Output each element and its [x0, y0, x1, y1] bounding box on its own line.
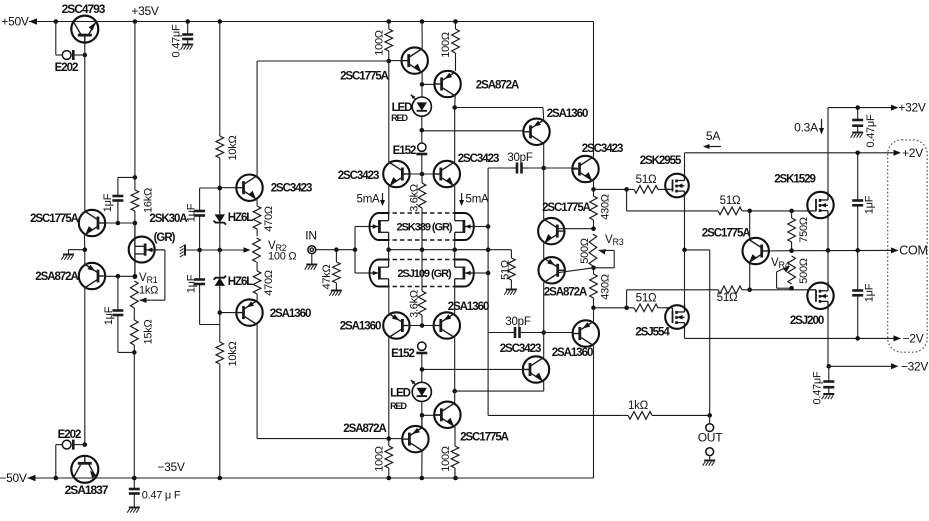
junction cap bottom rail — [132, 476, 137, 481]
junction base row c1775 x135 — [133, 221, 138, 226]
junction rail x455 bottom — [453, 476, 458, 481]
wire 2SA872A-l base row — [105, 275, 135, 277]
transistor 2SA872A mid — [539, 257, 565, 283]
junction cap top rail — [185, 19, 190, 24]
arrow 5mA right — [459, 193, 464, 206]
svg-text:COM: COM — [899, 244, 927, 258]
node +50V label — [1, 15, 29, 29]
wire IN to 47k — [316, 249, 355, 251]
svg-text:2SJ554: 2SJ554 — [635, 327, 670, 339]
node -50V label — [0, 471, 27, 485]
value 1uF right top — [864, 195, 876, 214]
value 16kOhm — [143, 188, 155, 213]
junction right gate bottom — [486, 271, 491, 276]
junction row D — [591, 306, 596, 311]
svg-text:5mA: 5mA — [357, 194, 380, 206]
wire vr4 to rowC — [791, 288, 793, 290]
pot VR2 wiper arrow — [244, 247, 251, 253]
transistor 2SA1360 bias bottom — [236, 299, 262, 325]
wire 30pF bottom to base — [526, 332, 573, 334]
wire bias bottom base — [220, 312, 237, 314]
wire cascode BR collector — [454, 338, 456, 392]
label 2SJ554 — [635, 327, 670, 339]
wire rowA to rowB — [626, 189, 628, 211]
value VR1 1k — [139, 285, 158, 297]
transistor 2SC1775A mid — [538, 218, 564, 244]
value 470 bottom — [263, 270, 275, 296]
wire VAS-t collector — [543, 144, 545, 168]
wire a872 mid base — [558, 268, 594, 273]
resistor 100 bottom-right — [451, 427, 459, 478]
arrow 0.3A — [819, 119, 824, 135]
junction base row c1775 x118 — [116, 221, 121, 226]
value 47kOhm — [321, 264, 333, 289]
svg-text:0.47μF: 0.47μF — [812, 371, 824, 404]
svg-text:2SK389 (GR): 2SK389 (GR) — [396, 222, 452, 234]
svg-text:10kΩ: 10kΩ — [227, 135, 239, 160]
label 2SA1360 VAS top — [547, 108, 588, 120]
junction rail x422 — [420, 19, 425, 24]
wire J200 drain — [827, 308, 829, 366]
potentiometer VR3 — [589, 234, 614, 268]
svg-text:+32V: +32V — [898, 101, 926, 115]
svg-text:2SC3423: 2SC3423 — [582, 143, 623, 155]
svg-text:3.6kΩ: 3.6kΩ — [409, 184, 421, 212]
transistor 2SA872A left — [79, 263, 105, 289]
zener HZ6L bottom — [214, 250, 226, 313]
svg-text:−50V: −50V — [0, 471, 27, 485]
junction K1529 source COM — [826, 248, 831, 253]
CRD E152 top — [416, 143, 427, 174]
svg-text:500Ω: 500Ω — [579, 238, 591, 264]
wire rowC to J200 gate — [750, 289, 809, 291]
resistor 3.6k bottom — [418, 250, 426, 326]
svg-text:10kΩ: 10kΩ — [227, 341, 239, 366]
junction zener bottom node — [218, 310, 223, 315]
svg-text:HZ6L: HZ6L — [228, 212, 254, 224]
svg-text:1μF: 1μF — [864, 195, 876, 214]
svg-text:2SC1775A: 2SC1775A — [340, 71, 389, 83]
label 2SC4793 — [62, 2, 106, 16]
value 3.6k top — [409, 184, 421, 212]
label 2SA872A mid — [544, 287, 587, 299]
wire -32V row — [829, 365, 894, 367]
svg-text:E202: E202 — [58, 429, 81, 441]
svg-text:51Ω: 51Ω — [500, 260, 512, 280]
junction base row a872 x118 — [116, 274, 121, 279]
value 10kOhm bottom — [227, 341, 239, 366]
wire vbe base — [762, 250, 792, 252]
svg-text:16kΩ: 16kΩ — [143, 188, 155, 213]
svg-text:(GR): (GR) — [154, 232, 176, 244]
transistor 2SA1360 VAS top — [523, 119, 549, 145]
junction bias top base — [218, 186, 223, 191]
junction VR1 top — [133, 274, 138, 279]
wire 2SA872A-t collector — [454, 96, 457, 108]
wire gate split up — [354, 227, 356, 274]
junction rail x55 bottom — [54, 476, 59, 481]
capacitor 1uF zener bottom — [194, 250, 205, 325]
wire 1uF bottom jog2 — [200, 324, 220, 326]
label VR4 sub — [779, 260, 790, 270]
junction VAS base tap top — [420, 128, 425, 133]
wire 2SC1775A-t collector — [421, 22, 423, 49]
ground 47k — [329, 291, 342, 296]
wire K389 right gate — [474, 226, 489, 228]
resistor 430 bottom — [590, 268, 598, 308]
wire left branch bottom — [55, 445, 57, 478]
svg-text:2SA1360: 2SA1360 — [448, 301, 489, 313]
svg-text:30pF: 30pF — [507, 152, 532, 164]
wire J109 right source — [454, 250, 456, 260]
wire K1529 drain — [827, 108, 829, 193]
svg-text:2SK1529: 2SK1529 — [774, 174, 815, 186]
resistor 51 tap — [508, 250, 516, 289]
junction rail x455 — [453, 19, 458, 24]
transistor 2SC1775A bottom — [434, 402, 460, 428]
wire mid ground row — [186, 249, 248, 251]
node -35V label — [157, 460, 185, 474]
resistor 10k top — [216, 22, 224, 189]
svg-text:HZ6L: HZ6L — [228, 276, 254, 288]
wire x455 to c1775b collector — [454, 391, 456, 402]
resistor 51 rowA — [594, 186, 666, 194]
box 2SK389 dashed — [385, 213, 460, 240]
wire LED to dot131 — [421, 116, 423, 143]
svg-text:1μF: 1μF — [864, 283, 876, 302]
svg-text:0.47 μ F: 0.47 μ F — [142, 490, 181, 502]
jfet 2SJ109 right — [454, 260, 474, 287]
resistor 51 rowC — [627, 286, 750, 294]
label 2SA1360 cascode BL — [340, 321, 381, 333]
wire VAS-b collector — [593, 346, 595, 479]
wire output node to OUT col — [685, 249, 710, 251]
svg-text:2SK30A: 2SK30A — [149, 213, 187, 225]
wire K389 right source — [454, 240, 456, 250]
capacitor 1uF right top — [852, 153, 863, 251]
wire drive row top — [257, 60, 389, 62]
wire 2SA872A-b collector — [421, 451, 423, 478]
svg-text:1μF: 1μF — [186, 203, 198, 222]
resistor 47k — [333, 250, 341, 290]
transistor 2SA1837 — [71, 456, 98, 483]
value 1uF zener top — [186, 203, 198, 222]
junction source row left — [386, 247, 391, 252]
value 51 rowB — [720, 195, 741, 207]
label 2SA1837 — [65, 483, 109, 497]
label 2SC3423 pre top — [582, 143, 623, 155]
wire J554 drain — [684, 329, 686, 339]
wire pre top emitter — [593, 181, 595, 189]
label VR3 sub — [613, 237, 624, 247]
transistor 2SA1360 cascode BR — [434, 312, 460, 338]
junction COM 1uF — [855, 248, 860, 253]
svg-text:2SC1775A: 2SC1775A — [30, 213, 79, 225]
junction rail x422 bottom — [420, 476, 425, 481]
svg-text:100Ω: 100Ω — [440, 32, 452, 58]
svg-text:E202: E202 — [55, 62, 78, 74]
label 2SA1360 VAS bottom — [552, 347, 593, 359]
wire +2V row — [685, 152, 895, 154]
wire gate bottom to J109 — [355, 272, 370, 274]
wire 1uF top jog — [118, 176, 135, 178]
label RED bottom — [390, 401, 407, 411]
potentiometer VR1 — [131, 250, 165, 308]
wire vbe emitter — [749, 263, 751, 290]
resistor 430 top — [590, 189, 598, 228]
transistor 2SJ554 — [665, 305, 689, 330]
label 2SK389 — [396, 222, 452, 234]
capacitor 1uF zener top — [194, 188, 205, 250]
junction base node bottom-left — [387, 436, 392, 441]
svg-text:R3: R3 — [613, 237, 624, 247]
junction VR3 bottom — [591, 266, 596, 271]
node +32V arrow — [891, 105, 899, 111]
svg-text:2SC3423: 2SC3423 — [458, 153, 499, 165]
capacitor 0.47uF right top — [851, 108, 864, 138]
jfet 2SK389 right — [454, 213, 474, 240]
wire pre top collector — [593, 22, 595, 158]
svg-text:3.6kΩ: 3.6kΩ — [409, 290, 421, 318]
svg-text:1μF: 1μF — [186, 274, 198, 293]
wire left branch top — [55, 22, 57, 56]
capacitor 1uF top-left — [112, 177, 123, 223]
svg-text:430Ω: 430Ω — [600, 194, 612, 220]
node OUT label — [698, 431, 724, 445]
wire column to -35V — [133, 352, 135, 478]
svg-text:500Ω: 500Ω — [798, 258, 810, 284]
junction 47k top — [334, 247, 339, 252]
wire pre bottom emitter row — [455, 390, 544, 392]
junction 1uF bottom -2V — [855, 336, 860, 341]
capacitor 0.47uF right bottom — [822, 366, 835, 399]
svg-text:2SA1837: 2SA1837 — [65, 483, 109, 497]
svg-text:100 Ω: 100 Ω — [268, 251, 296, 263]
wire x389 down to cascode — [388, 61, 390, 162]
svg-text:IN: IN — [305, 229, 317, 243]
wire gnd stub — [69, 249, 85, 251]
label 2SC1775A bottom — [460, 432, 509, 444]
value 1uF top-left — [102, 193, 114, 212]
svg-text:1kΩ: 1kΩ — [628, 400, 649, 412]
label 2SK1529 — [774, 174, 815, 186]
svg-text:−35V: −35V — [157, 460, 185, 474]
resistor 470 top — [253, 200, 261, 236]
svg-text:2SA1360: 2SA1360 — [547, 108, 588, 120]
transistor 2SC3423 cascode TR — [434, 161, 460, 187]
junction mid gnd x200 — [197, 248, 202, 253]
wire 2SC1775A-l base row — [105, 222, 135, 224]
wire cascode TL emitter — [388, 186, 390, 213]
value 1k feedback — [628, 400, 649, 412]
junction 750 bottom — [789, 248, 794, 253]
node -2V label — [903, 332, 924, 346]
label 2SC1775A vbe — [702, 228, 751, 240]
junction row A — [591, 187, 596, 192]
junction pre-b base tap — [420, 367, 425, 372]
wire VAS-t emitter — [542, 108, 545, 121]
value 1uF zener bottom — [186, 274, 198, 293]
wire x455 down to cascode TR — [454, 108, 456, 163]
junction IN gate split — [353, 247, 358, 252]
junction +32V cap — [855, 105, 860, 110]
wire c1775 bottom base — [422, 414, 441, 416]
svg-text:2SK2955: 2SK2955 — [640, 155, 682, 167]
junction 15k bottom — [132, 350, 137, 355]
value 51 rowC — [717, 292, 738, 304]
label VR4 — [771, 257, 779, 269]
svg-text:RED: RED — [390, 401, 407, 411]
value 0.47uF right bottom — [812, 371, 824, 404]
svg-text:1μF: 1μF — [103, 306, 115, 325]
value 51 rowA — [636, 174, 657, 186]
svg-text:2SC3423: 2SC3423 — [500, 343, 541, 355]
wire bias bottom collector down — [256, 325, 258, 439]
wire gate top to K389 — [355, 226, 370, 228]
transistor 2SA872A top — [434, 71, 460, 97]
junction rail x135 bottom — [132, 476, 137, 481]
resistor 750 — [788, 211, 796, 251]
svg-text:100Ω: 100Ω — [374, 30, 386, 56]
label 2SJ200 — [790, 315, 824, 327]
capacitor 30pF top — [511, 163, 529, 174]
wire K2955 drain — [684, 153, 686, 173]
node -2V arrow — [894, 335, 902, 341]
wire J109 right gate — [474, 272, 489, 274]
wire left column lower — [84, 288, 86, 445]
label VR2 sub — [276, 243, 287, 253]
value 430 top — [600, 194, 612, 220]
value VR4 500 — [798, 258, 810, 284]
wire c1775 mid base — [557, 228, 593, 230]
label VR1 sub — [147, 275, 158, 285]
junction x455 emitter row — [452, 389, 457, 394]
junction zener top node — [218, 186, 223, 191]
wire 2SC4793 base — [84, 35, 86, 55]
junction OUT node — [707, 413, 712, 418]
junction rail x220 — [218, 19, 223, 24]
wire cascode TL base — [404, 173, 422, 175]
wire E152b to LED — [421, 369, 423, 382]
arrow 5mA left — [380, 193, 385, 206]
wire cascode BL base — [404, 325, 422, 327]
svg-text:100Ω: 100Ω — [374, 446, 386, 472]
svg-text:OUT: OUT — [698, 431, 724, 445]
svg-text:+50V: +50V — [1, 15, 29, 29]
wire COM row — [792, 249, 894, 251]
CRD E202 bottom — [56, 440, 85, 450]
transistor 2SA1360 VAS bottom — [573, 320, 599, 346]
label E202 top — [55, 62, 78, 74]
wire cascode BR emitter — [454, 287, 456, 314]
wire J200 source — [827, 250, 829, 283]
terminal OUT — [706, 424, 714, 432]
svg-text:2SC1775A: 2SC1775A — [460, 432, 509, 444]
wire 2SA872A-b base — [389, 438, 402, 440]
resistor 470 bottom — [253, 262, 261, 301]
resistor 1k feedback — [621, 412, 710, 420]
wire mid pair collector down — [543, 282, 545, 332]
label RED top — [391, 113, 408, 123]
value 100 top-right — [440, 32, 452, 58]
wire K2955 source — [684, 198, 686, 250]
wire cascode TR base — [422, 173, 441, 175]
value 30pF bottom — [505, 316, 530, 328]
svg-text:470Ω: 470Ω — [263, 270, 275, 296]
jfet 2SK389 left — [369, 213, 389, 240]
svg-text:+35V: +35V — [131, 4, 159, 18]
junction 30pF row bottom — [541, 330, 546, 335]
terminal OUT ground — [706, 448, 714, 456]
value 100 bottom-left — [374, 446, 386, 472]
wire K389 left source — [388, 240, 390, 250]
junction folded node top — [452, 105, 457, 110]
value 15kOhm — [143, 319, 155, 344]
CRD E202 top — [56, 50, 85, 60]
wire -35V bottom rail — [28, 477, 594, 479]
wire K1529 source — [827, 217, 829, 250]
resistor 3.6k top — [418, 174, 426, 250]
junction 2SA872A-t base — [420, 82, 425, 87]
svg-text:2SJ200: 2SJ200 — [790, 315, 824, 327]
svg-text:2SJ109 (GR): 2SJ109 (GR) — [397, 268, 452, 280]
node +35V label — [131, 4, 159, 18]
wire folded node to VAS emitter — [455, 107, 543, 109]
value 51 tap — [500, 260, 512, 280]
value 750 — [798, 217, 810, 243]
node +2V label — [902, 146, 923, 160]
label 2SJ109 — [397, 268, 452, 280]
label 2SC1775A top — [340, 71, 389, 83]
box output connector — [888, 140, 928, 352]
wire VAS-t base — [422, 130, 524, 132]
wire x422 to LED — [421, 84, 423, 97]
label 2SK30A — [149, 213, 187, 225]
resistor 15k — [131, 308, 139, 352]
wire 51 tap — [488, 249, 511, 251]
transistor 2SC4793 — [71, 16, 98, 43]
junction base 2SA1837 — [83, 442, 88, 447]
junction VR4 bottom — [789, 286, 794, 291]
wire left column upper — [84, 55, 86, 211]
wire cascode BL emitter — [388, 287, 390, 314]
svg-text:47kΩ: 47kΩ — [321, 264, 333, 289]
capacitor 30pF bottom — [509, 327, 527, 338]
capacitor 1uF right bottom — [852, 250, 863, 338]
node IN label — [305, 229, 317, 243]
wire 2SC1775A-l emitter — [83, 235, 85, 250]
junction 750 top — [789, 209, 794, 214]
wire right gates vertical — [487, 168, 489, 415]
zener HZ6L top — [214, 188, 226, 250]
svg-text:2SC4793: 2SC4793 — [62, 2, 106, 16]
junction gnd stub left — [83, 247, 88, 252]
wire x543 down to mid pair — [543, 168, 545, 218]
svg-text:5mA: 5mA — [466, 194, 489, 206]
resistor 100 top-right — [452, 22, 460, 72]
transistor 2SK30A — [129, 223, 165, 277]
node -32V label — [901, 360, 929, 374]
wire -2V row — [685, 337, 895, 339]
terminal IN — [308, 246, 316, 254]
svg-text:430Ω: 430Ω — [600, 274, 612, 300]
junction rowB right — [747, 209, 752, 214]
label 5mA right — [466, 194, 489, 206]
junction base row a872 x135 — [133, 274, 138, 279]
junction VR3 top — [591, 226, 596, 231]
wire +35V column — [134, 22, 136, 178]
svg-text:E152: E152 — [391, 348, 414, 360]
